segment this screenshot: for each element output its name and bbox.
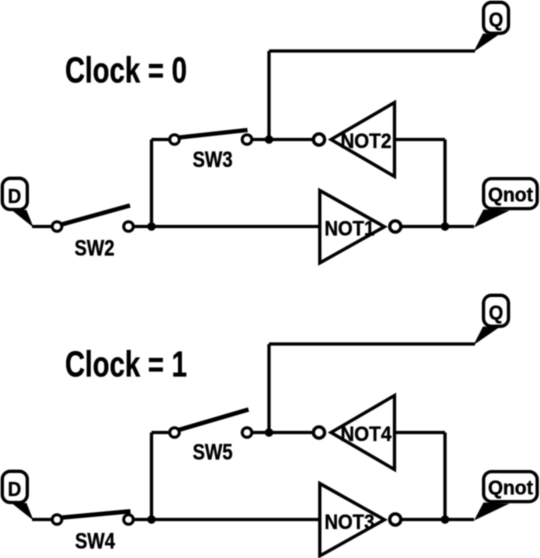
svg-text:NOT1: NOT1 [325,218,375,241]
svg-text:D: D [8,479,22,501]
svg-text:Qnot: Qnot [488,185,533,207]
svg-text:NOT3: NOT3 [325,511,375,534]
svg-text:Clock = 1: Clock = 1 [65,344,187,385]
svg-text:Q: Q [489,10,504,32]
svg-text:Clock = 0: Clock = 0 [65,50,187,91]
svg-text:NOT2: NOT2 [341,130,392,153]
svg-text:SW4: SW4 [75,528,116,553]
svg-text:D: D [8,186,22,208]
svg-text:SW5: SW5 [193,440,233,465]
svg-text:SW3: SW3 [193,147,233,172]
svg-text:Q: Q [489,303,504,325]
svg-text:Qnot: Qnot [488,478,533,500]
svg-text:NOT4: NOT4 [341,423,392,446]
svg-text:SW2: SW2 [75,235,115,260]
